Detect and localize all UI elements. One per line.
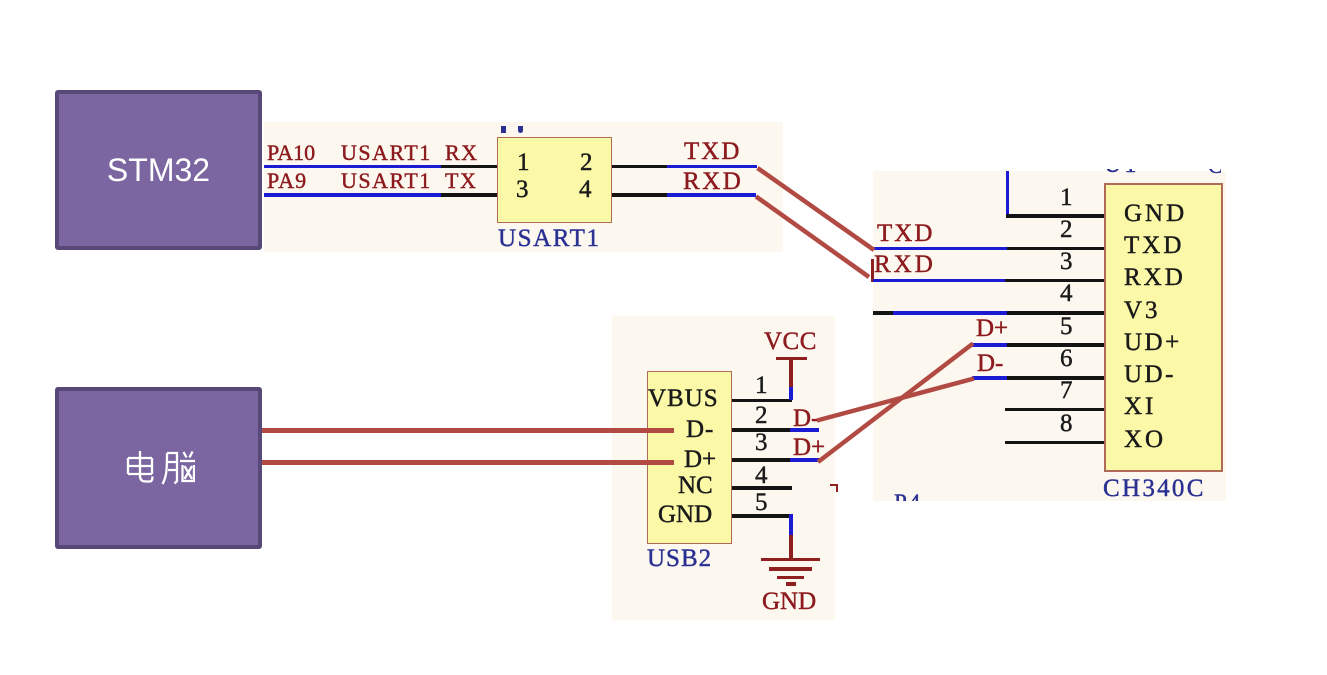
wire D- link (USB2 D- to CH340C UD-) xyxy=(817,379,974,421)
pin label GND (CH340C) xyxy=(1124,201,1187,226)
pin 4 wire (USB2) xyxy=(732,486,792,490)
pin 1 number (CH340C) xyxy=(1060,185,1073,210)
wire PA9 (blue segment) xyxy=(264,193,441,197)
pin 2 number (USB2) xyxy=(755,403,768,428)
pin 7 wire (CH340C) xyxy=(1005,408,1104,412)
pin 6 wire (CH340C, black segment) xyxy=(1007,376,1104,380)
pin 5 wire (CH340C, blue segment) xyxy=(972,343,1007,347)
wire 电脑 to USB D- (red) xyxy=(262,428,674,433)
ground symbol bar 2 xyxy=(769,567,812,571)
net label TXD (CH340C side) xyxy=(877,221,934,246)
schematic panel background (CH340C area) xyxy=(873,171,1226,501)
pin 3 number (USB2) xyxy=(755,430,768,455)
power rail VCC: blue riser xyxy=(789,387,793,401)
pin label XO (CH340C) xyxy=(1124,427,1166,452)
text fragment (small red mark) xyxy=(830,484,838,492)
block 电脑 (computer) xyxy=(55,387,262,549)
net label PA10 USART1 RX xyxy=(267,142,315,164)
label CH340C xyxy=(1103,476,1206,501)
ground symbol bar 3 xyxy=(777,576,804,580)
block STM32 xyxy=(55,90,262,250)
label USB2 xyxy=(647,546,712,571)
pin 3 wire (CH340C, blue segment) xyxy=(873,279,1005,283)
pin 8 number (CH340C) xyxy=(1060,411,1073,436)
net label D+ (CH340C side) xyxy=(976,316,1008,341)
pin label TXD (CH340C) xyxy=(1124,233,1184,258)
wire RXD link (USART1 pin4 to CH340C RXD) xyxy=(756,197,869,278)
pin 1 wire (CH340C, horizontal) xyxy=(1006,214,1104,218)
pin 6 wire (CH340C, blue segment) xyxy=(972,376,1007,380)
pin label UD+ (CH340C) xyxy=(1124,330,1182,355)
pin label D- (USB2) xyxy=(686,417,714,442)
connector USB2 body xyxy=(647,371,733,544)
pin 4 wire (CH340C, blue segment) xyxy=(893,311,1007,315)
pin 3 (USART1) xyxy=(516,177,529,202)
net label D+ (USB2 side) xyxy=(793,435,825,460)
ground net label GND xyxy=(762,589,816,614)
net label PA9 USART1 TX xyxy=(267,170,307,192)
label USART1 xyxy=(498,226,601,251)
net label RXD (USART side) xyxy=(683,169,743,194)
pin 5 number (USB2) xyxy=(755,490,768,515)
pin label VBUS (USB2) xyxy=(648,386,719,411)
pin label GND (USB2) xyxy=(658,502,712,527)
pin 1 wire (CH340C, vertical blue from top) xyxy=(1006,171,1010,217)
pin 2 (USART1) xyxy=(580,150,593,175)
pin label V3 (CH340C) xyxy=(1124,298,1161,323)
pin 5 number (CH340C) xyxy=(1060,314,1073,339)
pin 2 number (CH340C) xyxy=(1060,217,1073,242)
pin 3 wire (USB2, blue segment) xyxy=(790,458,819,462)
pin 3 number (CH340C) xyxy=(1060,249,1073,274)
pin 4 wire (CH340C, black stub at left) xyxy=(873,311,893,315)
pin 4 number (CH340C) xyxy=(1060,281,1073,306)
power rail VCC: crossbar xyxy=(776,357,807,361)
ground symbol bar 4 xyxy=(786,582,796,586)
net label D- (CH340C side) xyxy=(977,351,1003,376)
pin 2 wire (USB2, blue segment) xyxy=(790,428,819,432)
net label TXD (USART side) xyxy=(684,139,741,164)
ground net: blue drop xyxy=(789,514,793,535)
pin 2 wire (USB2, black segment) xyxy=(732,428,790,432)
pin 4 wire (CH340C, black segment) xyxy=(1007,311,1104,315)
wire PA9 (black segment to pin 3) xyxy=(441,193,498,197)
schematic panel background (USB2 area) xyxy=(612,316,835,620)
IC U1 CH340C body xyxy=(1104,183,1224,472)
designator fragment P4 (clipped) xyxy=(894,489,924,501)
wire pin4 to RXD (blue segment) xyxy=(667,193,756,197)
pin label NC (USB2) xyxy=(678,473,713,498)
pin 1 (USART1) xyxy=(517,150,530,175)
pin 5 wire (CH340C, black segment) xyxy=(1007,343,1104,347)
power rail VCC: red riser xyxy=(789,358,793,387)
ground symbol bar 1 xyxy=(761,558,820,562)
pin 1 number (USB2) xyxy=(755,373,768,398)
text fragment bar before RXD xyxy=(871,259,874,282)
pin 4 number (USB2) xyxy=(755,463,768,488)
pin 8 wire (CH340C) xyxy=(1005,441,1104,445)
wire pin2 to TXD (blue segment) xyxy=(667,165,757,169)
pin 2 wire (CH340C, blue segment) xyxy=(872,247,1007,251)
pin 6 number (CH340C) xyxy=(1060,346,1073,371)
pin 7 number (CH340C) xyxy=(1060,378,1073,403)
pin label RXD (CH340C) xyxy=(1124,265,1186,290)
wire PA10 (black segment to pin 1) xyxy=(441,165,498,169)
wire pin2 to TXD (black segment) xyxy=(612,165,667,169)
pin 1 wire (USB2) xyxy=(732,399,792,403)
pin label XI (CH340C) xyxy=(1124,394,1156,419)
designator fragment U1 (clipped) xyxy=(1104,169,1137,178)
pin 3 wire (CH340C, black segment) xyxy=(1005,279,1104,283)
wire pin4 to RXD (black segment) xyxy=(612,193,667,197)
wire D+ link (USB2 D+ to CH340C UD+) xyxy=(818,344,973,463)
wire 电脑 to USB D+ (red) xyxy=(262,460,674,465)
net label D- (USB2 side) xyxy=(793,406,819,431)
connector USART1 body xyxy=(497,137,612,223)
pin 4 (USART1) xyxy=(579,177,592,202)
schematic panel background (USART1 strip) xyxy=(264,122,783,252)
pin label UD- (CH340C) xyxy=(1124,362,1176,387)
pin 3 wire (USB2, black segment) xyxy=(732,458,790,462)
pin 5 wire (USB2) xyxy=(732,514,792,518)
pin 2 wire (CH340C, black segment) xyxy=(1007,247,1104,251)
net label RXD (CH340C side) xyxy=(874,252,936,277)
block label 电脑 (drawn strokes) xyxy=(123,450,195,490)
wire TXD link (USART1 pin2 to CH340C TXD) xyxy=(758,168,875,250)
designator fragment above USART1 xyxy=(501,126,506,133)
wire PA10 (blue segment) xyxy=(264,165,441,169)
power net label VCC xyxy=(764,329,817,354)
text fragment (clipped, right of U1) xyxy=(1208,169,1221,177)
ground net: red drop xyxy=(789,535,793,560)
pin label D+ (USB2) xyxy=(684,447,716,472)
